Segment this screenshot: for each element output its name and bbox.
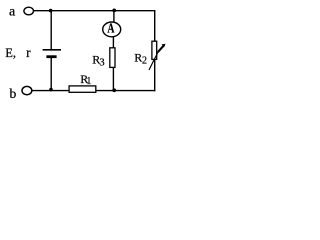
svg-text:1: 1 [86,76,91,87]
svg-text:r: r [26,45,31,60]
svg-text:E,: E, [5,46,16,60]
svg-text:b: b [10,86,17,101]
svg-text:A: A [107,20,114,36]
svg-text:3: 3 [99,57,104,68]
svg-text:2: 2 [142,55,147,66]
svg-text:a: a [9,5,16,20]
